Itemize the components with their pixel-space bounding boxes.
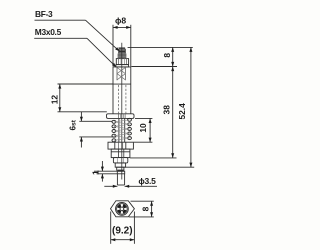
svg-text:8: 8 bbox=[162, 53, 172, 58]
svg-text:(9.2): (9.2) bbox=[112, 225, 133, 236]
svg-text:ϕ3.5: ϕ3.5 bbox=[138, 176, 156, 186]
svg-text:52.4: 52.4 bbox=[177, 103, 187, 120]
svg-text:12: 12 bbox=[49, 95, 59, 105]
svg-text:8: 8 bbox=[141, 206, 151, 211]
svg-text:38: 38 bbox=[162, 105, 172, 115]
svg-text:1: 1 bbox=[92, 170, 101, 175]
svg-text:M3x0.5: M3x0.5 bbox=[35, 27, 62, 37]
svg-text:6st: 6st bbox=[68, 119, 77, 130]
svg-text:10: 10 bbox=[138, 123, 148, 133]
svg-text:BF-3: BF-3 bbox=[35, 9, 53, 19]
svg-text:ϕ8: ϕ8 bbox=[115, 16, 126, 26]
